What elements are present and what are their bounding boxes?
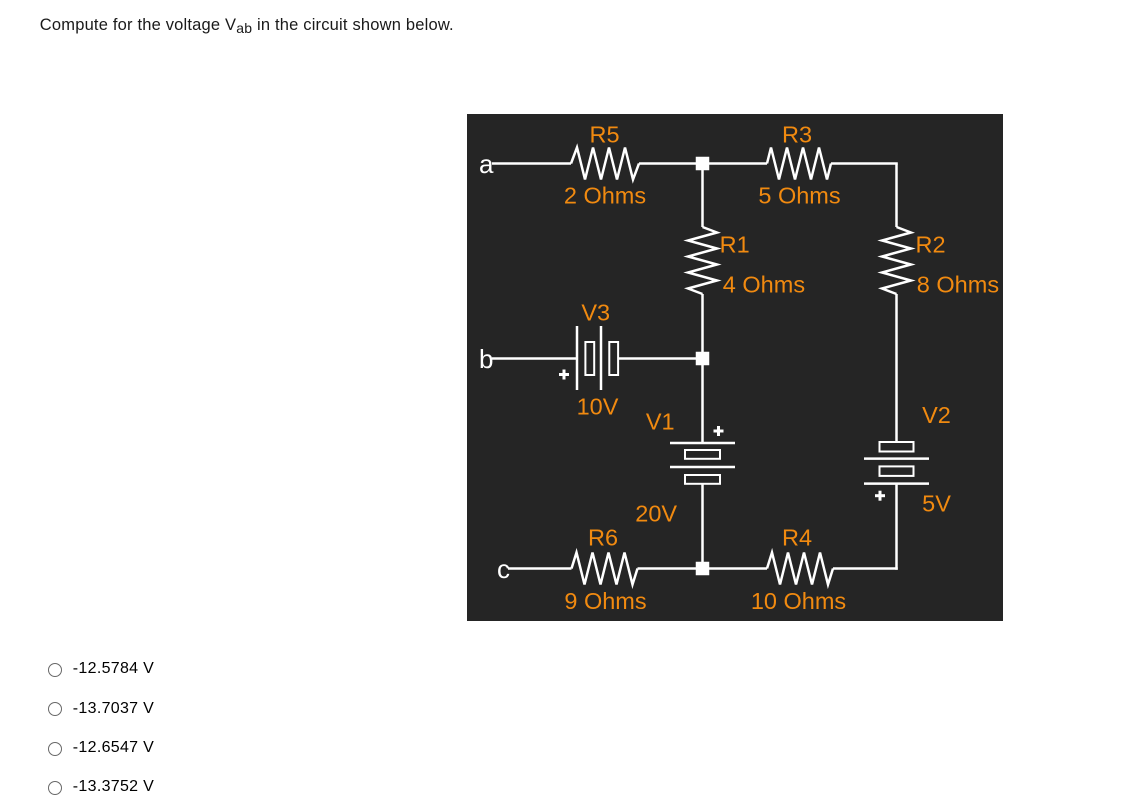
svg-text:b: b [479, 344, 493, 374]
svg-text:V2: V2 [922, 402, 951, 428]
svg-text:8 Ohms: 8 Ohms [917, 272, 999, 298]
wire node c to R6 [508, 567, 572, 570]
svg-text:R3: R3 [782, 121, 812, 147]
svg-text:R5: R5 [589, 121, 619, 147]
svg-text:4 Ohms: 4 Ohms [723, 272, 805, 298]
wire R4 to right column [833, 567, 898, 570]
bottom junction node [696, 562, 710, 576]
battery V3 [577, 326, 618, 390]
svg-text:R4: R4 [782, 525, 812, 551]
svg-text:R2: R2 [916, 232, 946, 258]
svg-text:V1: V1 [646, 409, 675, 435]
svg-text:10V: 10V [577, 394, 619, 420]
V2 plus sign [875, 491, 885, 501]
circuit schematic panel [467, 114, 1003, 621]
wire node b to V3 [492, 357, 577, 360]
wire R5 to top junction [639, 162, 703, 165]
svg-text:5V: 5V [922, 491, 951, 517]
resistor R1 [688, 227, 717, 294]
wire R6 to bottom junction [638, 567, 703, 570]
resistor R2 [882, 227, 911, 294]
wire V3 to middle junction [618, 357, 702, 360]
svg-text:V3: V3 [581, 299, 610, 325]
svg-text:a: a [479, 149, 494, 179]
wire R1 to middle junction [701, 294, 704, 359]
wire node a to R5 [492, 162, 571, 165]
resistor R5 [571, 148, 639, 180]
svg-text:2 Ohms: 2 Ohms [564, 183, 646, 209]
wire top right corner down to R2 [895, 164, 898, 228]
resistor R4 [767, 553, 833, 585]
V3 plus sign [559, 370, 569, 380]
wire V1 to bottom junction [701, 484, 704, 569]
wire V2 to bottom right corner [895, 484, 898, 570]
top junction node [696, 157, 710, 171]
svg-text:9 Ohms: 9 Ohms [564, 588, 646, 614]
middle junction node [696, 352, 710, 366]
wire R3 to right column corner [831, 162, 898, 165]
wire top junction to R3 [703, 162, 768, 165]
battery V2 [864, 442, 929, 484]
resistor R6 [572, 553, 638, 585]
V1 plus sign [714, 426, 724, 436]
wire middle junction to V1 [701, 359, 704, 444]
svg-text:20V: 20V [635, 500, 677, 526]
svg-text:10 Ohms: 10 Ohms [751, 588, 846, 614]
svg-text:R6: R6 [588, 525, 618, 551]
battery V1 [670, 443, 735, 484]
wire R2 to battery V2 [895, 294, 898, 442]
wire bottom junction to R4 [703, 567, 768, 570]
svg-text:5 Ohms: 5 Ohms [758, 183, 840, 209]
resistor R3 [767, 148, 831, 180]
wire top junction down to R1 [701, 164, 704, 228]
svg-text:R1: R1 [720, 232, 750, 258]
